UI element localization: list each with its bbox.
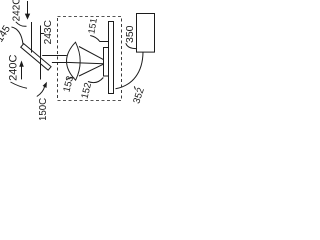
- converging ray (bottom): [79, 64, 103, 76]
- leader 350: [126, 43, 137, 48]
- leader 240C: [11, 82, 28, 88]
- svg-text:242C: 242C: [12, 0, 23, 21]
- cable 352: [116, 52, 144, 89]
- sensor plate 152: [104, 48, 109, 77]
- leader 145: [12, 27, 24, 44]
- control unit 350: [137, 14, 155, 53]
- svg-text:243C: 243C: [43, 20, 54, 44]
- leader 152: [88, 78, 103, 83]
- optical axis ray (middle): [66, 62, 103, 63]
- detector board 151: [109, 22, 114, 94]
- beam arrow 150C: [37, 86, 45, 96]
- beam line (right, through mirror): [40, 26, 42, 80]
- beam arrow 242C: [27, 1, 29, 14]
- mirror 145: [21, 44, 51, 71]
- beam line to lens (upper): [42, 55, 67, 57]
- svg-text:150C: 150C: [38, 98, 49, 120]
- leader 153: [67, 78, 75, 80]
- leader 242C: [16, 22, 27, 27]
- beam arrow 240C: [21, 66, 23, 79]
- leader 352: [134, 86, 135, 89]
- leader 243C: [41, 33, 45, 35]
- lens 153: [67, 42, 81, 80]
- beam line (left, above mirror): [31, 22, 33, 53]
- converging ray (top): [79, 47, 103, 60]
- dashed housing box: [58, 17, 122, 101]
- leader 151: [90, 36, 108, 42]
- svg-text:350: 350: [124, 25, 136, 43]
- svg-text:240C: 240C: [7, 55, 19, 81]
- beam line to lens (lower): [52, 62, 66, 64]
